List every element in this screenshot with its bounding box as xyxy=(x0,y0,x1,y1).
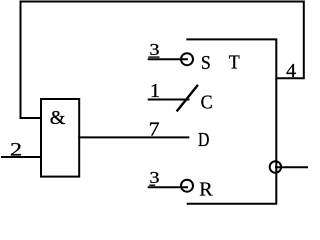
svg-text:D: D xyxy=(198,129,209,151)
svg-text:1: 1 xyxy=(150,80,160,102)
svg-text:R: R xyxy=(199,179,213,201)
svg-text:3: 3 xyxy=(150,168,160,187)
svg-text:4: 4 xyxy=(286,60,296,82)
svg-text:T: T xyxy=(229,52,240,74)
svg-text:C: C xyxy=(201,92,213,114)
svg-text:S: S xyxy=(201,52,211,74)
svg-text:2: 2 xyxy=(10,140,22,161)
svg-text:&: & xyxy=(50,107,66,129)
svg-text:7: 7 xyxy=(149,119,160,141)
svg-text:3: 3 xyxy=(150,40,160,59)
